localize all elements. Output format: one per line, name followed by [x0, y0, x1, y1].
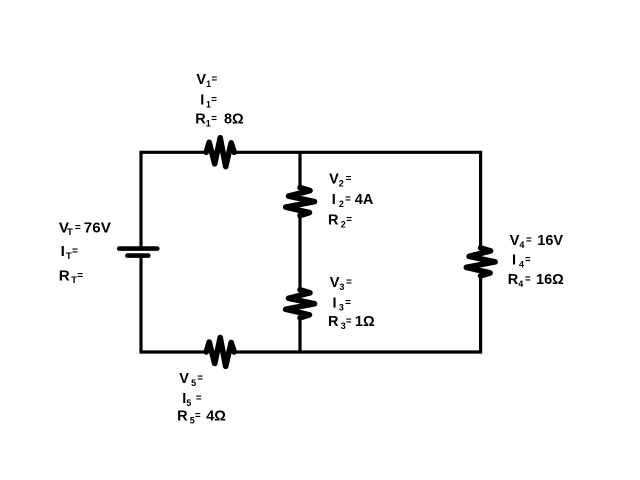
svg-text:R1=8Ω: R1=8Ω [195, 112, 244, 129]
wire: middle branch, segment between R2 and R3 [298, 215, 301, 290]
svg-text:I4=: I4= [512, 253, 531, 270]
wire: middle branch, bottom segment (R3 to node D) [298, 318, 301, 353]
battery VT long plate (+) [119, 246, 157, 251]
wire: bottom side, left segment (bottom-left corner to R5) [141, 350, 207, 353]
svg-text:R3=1Ω: R3=1Ω [328, 314, 375, 331]
svg-text:R5=4Ω: R5=4Ω [177, 409, 226, 426]
wire: left side, upper segment (top-left corner to battery +) [139, 151, 142, 247]
svg-text:R2=: R2= [328, 212, 352, 229]
svg-text:V3=: V3= [330, 275, 352, 292]
svg-text:V4=16V: V4=16V [510, 233, 564, 250]
svg-text:V1=: V1= [196, 72, 217, 89]
resistor R4 [466, 248, 495, 276]
svg-text:I1=: I1= [200, 93, 217, 110]
svg-text:IT=: IT= [61, 243, 78, 262]
wire: top side, right segment (R1 through node B to top-right corner) [234, 151, 481, 154]
svg-text:R4=16Ω: R4=16Ω [508, 272, 564, 289]
svg-text:I5=: I5= [182, 391, 202, 408]
wire: bottom side, right segment (R5 through node D to bottom-right corner) [234, 350, 481, 353]
svg-text:VT=76V: VT=76V [59, 219, 112, 238]
resistor R5 [206, 338, 234, 367]
battery VT short plate (-) [127, 253, 148, 258]
wire: top side, left segment (top-left corner to R1) [141, 151, 207, 154]
svg-text:RT=: RT= [59, 267, 84, 286]
wire: middle branch, top segment (node B to R2) [298, 152, 301, 188]
svg-text:V2=: V2= [329, 171, 352, 188]
svg-text:V5=: V5= [179, 371, 203, 388]
wire: right side, upper segment (top-right corner to R4) [479, 151, 482, 249]
svg-text:I2=4A: I2=4A [332, 192, 374, 209]
wire: left side, lower segment (battery - to bottom-left corner) [139, 258, 142, 354]
resistor R2 [286, 188, 315, 216]
resistor R3 [286, 290, 315, 318]
wire: right side, lower segment (R4 to bottom-right corner) [479, 276, 482, 354]
resistor R1 [206, 138, 234, 167]
svg-text:I3=: I3= [333, 296, 352, 313]
